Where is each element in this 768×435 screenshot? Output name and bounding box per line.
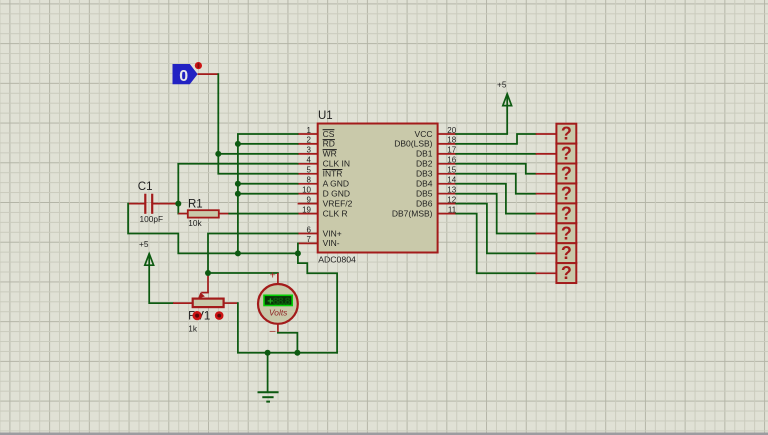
RV1 red dot left xyxy=(193,311,202,320)
wire RV1 to ground rail xyxy=(238,303,337,353)
wire VIN- to ground xyxy=(297,243,299,253)
svg-text:3: 3 xyxy=(307,146,312,155)
wire R1 to CLK R pin19 xyxy=(229,213,297,215)
logic state pin stub xyxy=(198,73,219,75)
svg-text:VIN-: VIN- xyxy=(323,238,340,248)
wire voltmeter minus to rail xyxy=(278,333,298,353)
junction voltmeter minus xyxy=(294,350,300,356)
svg-text:100pF: 100pF xyxy=(140,214,164,224)
wire DB1 to probe 2 xyxy=(456,153,536,155)
junction VIN- ground xyxy=(295,250,301,256)
svg-text:+: + xyxy=(270,270,276,282)
svg-text:D GND: D GND xyxy=(323,189,350,199)
svg-text:+5: +5 xyxy=(139,239,149,249)
power +5 right xyxy=(497,80,512,106)
potentiometer RV1 1k xyxy=(173,273,238,307)
svg-text:?: ? xyxy=(561,124,572,144)
pin 12 DB6 stub xyxy=(416,195,457,208)
svg-text:5: 5 xyxy=(307,166,312,175)
logic probe 2 xyxy=(556,144,576,164)
svg-text:WR: WR xyxy=(323,149,337,159)
label 1k xyxy=(188,323,198,333)
svg-text:DB6: DB6 xyxy=(416,198,433,208)
voltmeter Volts xyxy=(258,270,298,337)
svg-text:2: 2 xyxy=(307,136,312,145)
wire C1/R1 vertical xyxy=(177,164,179,214)
wire DB4 to probe 5 xyxy=(456,184,536,214)
RV1 red dot right xyxy=(215,311,224,320)
svg-text:0: 0 xyxy=(179,68,188,85)
probe stub 6 xyxy=(536,233,557,235)
svg-text:ADC0804: ADC0804 xyxy=(318,255,356,265)
svg-text:?: ? xyxy=(561,263,572,283)
label U1 xyxy=(318,110,333,122)
wire DB7 to probe 8 xyxy=(456,214,536,274)
svg-text:A GND: A GND xyxy=(323,179,349,189)
pin 3 WR stub xyxy=(298,146,337,159)
wire DB2 to probe 3 xyxy=(456,164,536,174)
svg-text:?: ? xyxy=(561,144,572,164)
logic state toggle marker xyxy=(195,62,202,69)
wire VCC to +5 xyxy=(456,106,507,134)
svg-text:C1: C1 xyxy=(138,181,153,193)
wire DB5 to probe 6 xyxy=(456,194,536,234)
junction A GND xyxy=(235,181,241,187)
pin 17 DB1 stub xyxy=(416,146,457,159)
pin 2 RD stub xyxy=(298,136,335,149)
logic probe 3 xyxy=(556,164,576,184)
probe stub 8 xyxy=(536,272,557,274)
svg-text:CLK IN: CLK IN xyxy=(323,159,350,169)
svg-text:?: ? xyxy=(561,203,572,223)
svg-text:VCC: VCC xyxy=(415,129,433,139)
svg-text:?: ? xyxy=(561,183,572,203)
wire DB6 to probe 7 xyxy=(456,204,536,254)
capacitor C1 100pF xyxy=(128,194,178,214)
svg-text:U1: U1 xyxy=(318,110,333,122)
logic probe 4 xyxy=(556,183,576,203)
svg-text:?: ? xyxy=(561,164,572,184)
logic probe 1 xyxy=(556,124,576,144)
svg-text:8: 8 xyxy=(307,176,312,185)
pin 19 CLK R stub xyxy=(298,205,348,218)
svg-text:1: 1 xyxy=(307,126,312,135)
pin 13 DB5 stub xyxy=(416,186,457,199)
junction D GND xyxy=(235,191,241,197)
svg-text:6: 6 xyxy=(307,225,312,234)
probe stub 5 xyxy=(536,213,557,215)
pin 5 INTR stub xyxy=(298,166,343,179)
svg-text:1k: 1k xyxy=(188,323,198,333)
label C1 xyxy=(138,181,153,193)
svg-text:DB4: DB4 xyxy=(416,179,433,189)
svg-text:Volts: Volts xyxy=(269,308,288,318)
pin 18 DB0(LSB) stub xyxy=(394,136,457,149)
svg-text:DB2: DB2 xyxy=(416,159,433,169)
logic state input 0 xyxy=(173,64,198,85)
wire to voltmeter plus xyxy=(208,272,278,274)
wire D GND branch xyxy=(238,193,298,195)
pin 16 DB2 stub xyxy=(416,156,457,169)
svg-text:19: 19 xyxy=(302,205,311,214)
junction ground symbol xyxy=(265,350,271,356)
junction ground bus xyxy=(235,250,241,256)
wire A GND branch xyxy=(238,183,298,185)
wire C1 to ground rail xyxy=(128,204,298,254)
logic probe 8 xyxy=(556,263,576,283)
pin 20 VCC stub xyxy=(415,126,457,139)
probe stub 4 xyxy=(536,193,557,195)
pin 15 DB3 stub xyxy=(416,166,457,179)
wire to ground xyxy=(267,353,269,393)
label ADC0804 xyxy=(318,255,356,265)
logic probe 5 xyxy=(556,203,576,223)
wire CS vertical ground bus xyxy=(238,134,298,253)
svg-text:VIN+: VIN+ xyxy=(323,228,342,238)
svg-text:?: ? xyxy=(561,243,572,263)
pin 10 D GND stub xyxy=(298,186,350,199)
svg-text:DB7(MSB): DB7(MSB) xyxy=(392,208,433,218)
label 100pF xyxy=(140,214,164,224)
svg-text:10k: 10k xyxy=(188,218,202,228)
label RV1 xyxy=(188,311,210,323)
probe stub 1 xyxy=(536,133,557,135)
label 10k xyxy=(188,218,202,228)
pin 7 VIN- stub xyxy=(298,235,340,248)
label R1 xyxy=(188,199,203,211)
svg-text:9: 9 xyxy=(307,195,312,204)
wire RD branch xyxy=(238,143,298,145)
svg-text:VREF/2: VREF/2 xyxy=(323,198,353,208)
resistor R1 10k xyxy=(178,210,229,217)
logic probe 6 xyxy=(556,223,576,243)
op-amp U1 ADC0804 IC body xyxy=(318,124,438,253)
pin 11 DB7(MSB) stub xyxy=(392,205,457,218)
wire DB0 to probe 1 xyxy=(456,134,536,144)
probe stub 3 xyxy=(536,173,557,175)
svg-text:CLK R: CLK R xyxy=(323,208,348,218)
svg-text:INTR: INTR xyxy=(323,169,343,179)
svg-text:DB1: DB1 xyxy=(416,149,433,159)
svg-text:–: – xyxy=(270,325,276,337)
svg-text:+: + xyxy=(267,295,273,307)
junction WR branch xyxy=(215,151,221,157)
svg-text:?: ? xyxy=(561,223,572,243)
pin 9 VREF/2 stub xyxy=(298,195,353,208)
probe stub 2 xyxy=(536,153,557,155)
junction RD xyxy=(235,141,241,147)
pin 8 A GND stub xyxy=(298,176,349,189)
svg-text:4: 4 xyxy=(307,156,312,165)
wire VIN+ to wiper xyxy=(208,234,298,274)
wire to CLK IN pin4 xyxy=(178,163,297,165)
svg-text:DB0(LSB): DB0(LSB) xyxy=(394,139,432,149)
svg-text:RD: RD xyxy=(323,139,335,149)
svg-text:CS: CS xyxy=(323,129,335,139)
junction wiper voltmeter xyxy=(205,270,211,276)
svg-text:10: 10 xyxy=(302,186,311,195)
wire +5 to RV1 xyxy=(149,265,173,303)
wire logic-state to INTR pin5 xyxy=(218,74,297,174)
svg-text:7: 7 xyxy=(307,235,312,244)
svg-text:DB5: DB5 xyxy=(416,189,433,199)
wire ground step down xyxy=(298,253,337,352)
junction C1 to CLK net xyxy=(175,201,181,207)
logic probe 7 xyxy=(556,243,576,263)
pin 1 CS stub xyxy=(298,126,335,139)
pin 6 VIN+ stub xyxy=(298,225,342,238)
svg-text:DB3: DB3 xyxy=(416,169,433,179)
wire DB3 to probe 4 xyxy=(456,174,536,194)
wire to WR pin3 xyxy=(218,153,297,155)
power +5 left xyxy=(139,239,154,265)
svg-text:R1: R1 xyxy=(188,199,203,211)
pin 14 DB4 stub xyxy=(416,176,457,189)
ground xyxy=(258,392,279,401)
probe stub 7 xyxy=(536,252,557,254)
pin 4 CLK IN stub xyxy=(298,156,350,169)
svg-text:+5: +5 xyxy=(497,80,507,90)
